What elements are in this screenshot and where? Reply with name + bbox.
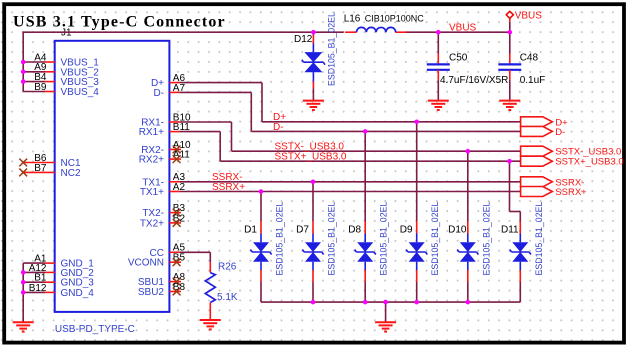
svg-text:VCONN: VCONN (128, 258, 164, 269)
svg-text:SSTX+_USB3.0: SSTX+_USB3.0 (555, 157, 623, 168)
svg-text:ESD105_B1_02EL: ESD105_B1_02EL (275, 202, 285, 276)
svg-text:TX1+: TX1+ (140, 187, 164, 198)
svg-text:C48: C48 (520, 53, 539, 64)
svg-text:ESD105_B1_02EL: ESD105_B1_02EL (481, 202, 491, 276)
svg-text:ESD105_B1_02EL: ESD105_B1_02EL (326, 12, 336, 86)
svg-text:NC2: NC2 (61, 168, 81, 179)
svg-text:D7: D7 (296, 225, 309, 236)
svg-text:D-: D- (153, 88, 164, 99)
svg-text:SSRX+: SSRX+ (555, 187, 587, 198)
svg-text:USB-PD_TYPE-C: USB-PD_TYPE-C (55, 324, 135, 335)
svg-text:SSTX+_USB3.0: SSTX+_USB3.0 (275, 152, 347, 163)
svg-text:ESD105_B1_02EL: ESD105_B1_02EL (327, 202, 337, 276)
svg-text:B12: B12 (29, 283, 47, 294)
svg-text:ESD105_B1_02EL: ESD105_B1_02EL (379, 202, 389, 276)
svg-text:ESD105_B1_02EL: ESD105_B1_02EL (430, 202, 440, 276)
svg-text:VBUS_4: VBUS_4 (61, 87, 100, 98)
svg-text:5.1K: 5.1K (217, 292, 238, 303)
svg-text:R26: R26 (218, 261, 237, 272)
svg-text:0.1uF: 0.1uF (520, 75, 546, 86)
svg-text:D12: D12 (294, 34, 313, 45)
svg-text:L16: L16 (344, 14, 361, 25)
svg-text:SBU2: SBU2 (138, 287, 165, 298)
svg-text:SSRX+: SSRX+ (212, 182, 245, 193)
svg-text:4.7uF/16V/X5R: 4.7uF/16V/X5R (440, 75, 508, 86)
svg-text:B7: B7 (34, 163, 47, 174)
svg-text:D-: D- (273, 122, 284, 133)
svg-text:RX1+: RX1+ (139, 127, 164, 138)
svg-text:TX2+: TX2+ (140, 218, 164, 229)
svg-text:D10: D10 (448, 225, 467, 236)
svg-text:D9: D9 (400, 225, 413, 236)
svg-text:VBUS: VBUS (515, 10, 543, 21)
svg-text:D1: D1 (244, 225, 257, 236)
svg-text:D11: D11 (501, 225, 519, 236)
svg-text:GND_4: GND_4 (61, 288, 95, 299)
svg-text:USB 3.1 Type-C Connector: USB 3.1 Type-C Connector (13, 14, 226, 31)
svg-text:B9: B9 (34, 82, 47, 93)
svg-text:CIB10P100NC: CIB10P100NC (365, 14, 425, 24)
svg-text:D8: D8 (348, 225, 361, 236)
svg-text:RX2+: RX2+ (139, 155, 164, 166)
svg-text:VBUS: VBUS (449, 23, 477, 34)
svg-text:D-: D- (555, 127, 565, 138)
svg-text:C50: C50 (449, 53, 468, 64)
svg-text:ESD105_B1_02EL: ESD105_B1_02EL (534, 202, 544, 276)
